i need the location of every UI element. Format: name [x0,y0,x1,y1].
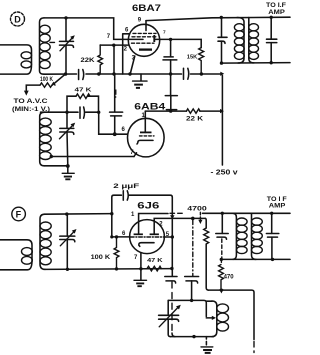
svg-text:100 K: 100 K [40,76,53,83]
svg-text:6AB4: 6AB4 [134,101,165,111]
svg-text:47 K: 47 K [75,87,93,93]
svg-text:- 250 v: - 250 v [211,170,238,177]
svg-text:F: F [16,209,22,219]
svg-text:470: 470 [224,273,234,280]
svg-text:7: 7 [163,29,166,35]
svg-text:TO A.V.C: TO A.V.C [14,98,49,105]
svg-text:15K: 15K [187,54,198,60]
svg-text:2 μμF: 2 μμF [113,183,139,190]
svg-text:22 K: 22 K [186,115,204,122]
svg-text:22K: 22K [81,57,95,64]
svg-text:4700: 4700 [187,206,207,213]
svg-text:100 K: 100 K [91,254,111,261]
svg-text:47 K: 47 K [147,258,163,264]
svg-text:D: D [14,14,21,24]
svg-text:6BA7: 6BA7 [132,3,161,14]
svg-text:AMP: AMP [269,203,286,210]
svg-text:6J6: 6J6 [137,201,159,211]
svg-text:AMP: AMP [268,9,285,16]
svg-text:TO I.F: TO I.F [266,2,286,9]
svg-text:TO I F: TO I F [267,196,287,203]
